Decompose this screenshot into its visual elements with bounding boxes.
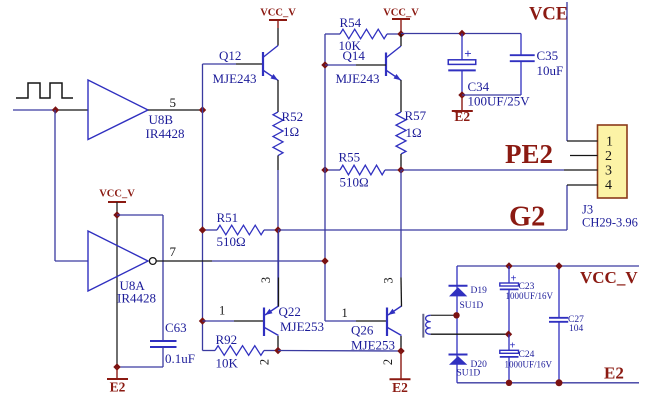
- diode D20: [449, 354, 468, 356]
- svg-text:2: 2: [258, 359, 272, 365]
- inverter U8A: [88, 231, 148, 291]
- wire Q22 emitter up: [278, 230, 280, 278]
- svg-text:3: 3: [605, 164, 612, 179]
- connector J3 body: [598, 125, 628, 198]
- inductor winding core bar: [422, 314, 424, 338]
- svg-text:R54: R54: [340, 15, 362, 30]
- inductor winding coil: [426, 315, 431, 334]
- wire winding top to diode node: [431, 314, 457, 316]
- svg-text:CH29-3.96: CH29-3.96: [582, 216, 638, 230]
- wire R92 node to Q26: [278, 350, 401, 353]
- node C27 bottom junction: [556, 379, 563, 386]
- buffer U8B: [88, 80, 148, 140]
- svg-text:1: 1: [219, 304, 225, 318]
- svg-text:D19: D19: [471, 286, 488, 296]
- pin 3 stub J3: [564, 169, 598, 171]
- node winding-diode junction: [453, 312, 459, 318]
- node R92 right junction: [274, 347, 281, 354]
- svg-text:Q14: Q14: [343, 48, 366, 63]
- svg-text:510Ω: 510Ω: [217, 234, 246, 249]
- node U8A ground junction: [113, 363, 120, 370]
- svg-text:0.1uF: 0.1uF: [165, 351, 195, 366]
- wire winding bottom to capacitor midpoint: [431, 333, 508, 335]
- svg-text:IR4428: IR4428: [117, 291, 156, 306]
- pin 4 stub J3: [567, 184, 598, 186]
- svg-text:1: 1: [342, 306, 348, 320]
- resistor R92: [215, 346, 264, 356]
- wire input to U8B: [13, 109, 56, 111]
- node C23 top junction: [505, 262, 512, 269]
- svg-text:10uF: 10uF: [537, 63, 564, 78]
- ground E2 under Q26: [400, 351, 402, 379]
- wire diode branch vertical: [456, 266, 458, 383]
- wire VCC to Q12 collector: [277, 20, 279, 28]
- svg-text:1Ω: 1Ω: [283, 124, 299, 139]
- svg-text:1: 1: [606, 135, 613, 150]
- wire C35 bottom to C34 node: [462, 94, 521, 96]
- svg-text:1Ω: 1Ω: [406, 125, 422, 140]
- wire Q14 emitter to R57: [400, 80, 402, 112]
- wire VCC to node: [400, 19, 402, 34]
- svg-text:C63: C63: [165, 320, 187, 335]
- node VCC Q14 junction: [397, 30, 404, 37]
- svg-text:MJE243: MJE243: [336, 71, 380, 86]
- svg-text:R51: R51: [217, 210, 239, 225]
- wire VCC_V top rail bottom-right: [457, 265, 639, 267]
- pin 1 stub J3: [567, 140, 598, 142]
- node U8B output junction: [199, 106, 206, 113]
- svg-text:R55: R55: [339, 150, 361, 165]
- wire Q14 collector: [400, 34, 402, 46]
- svg-text:SU1D: SU1D: [460, 301, 484, 311]
- power VCC_V at Q12: [269, 19, 287, 21]
- svg-text:R57: R57: [405, 108, 427, 123]
- node PE2 junction: [397, 166, 404, 173]
- ground E2 under C34: [461, 95, 463, 111]
- svg-text:E2: E2: [392, 380, 408, 395]
- svg-text:SU1D: SU1D: [457, 369, 481, 379]
- capacitor C63: [150, 340, 177, 342]
- svg-text:MJE253: MJE253: [351, 338, 395, 353]
- wire PE2 net to connector pin 3: [401, 169, 564, 171]
- node Q14 base junction: [321, 61, 328, 68]
- svg-text:100UF/25V: 100UF/25V: [468, 94, 531, 109]
- svg-text:PE2: PE2: [505, 139, 553, 169]
- svg-text:Q26: Q26: [351, 323, 374, 338]
- wire U8B output: [148, 109, 203, 111]
- svg-text:E2: E2: [454, 109, 470, 124]
- svg-text:2: 2: [605, 149, 612, 164]
- svg-text:5: 5: [170, 95, 177, 110]
- power VCC_V at Q14: [392, 18, 410, 20]
- node Q26 emitter junction E2: [397, 347, 404, 354]
- wire Q22 collector down: [277, 336, 279, 351]
- resistor R51: [217, 225, 264, 235]
- node U8A VCC junction: [113, 211, 120, 218]
- node C34 bottom junction: [458, 91, 465, 98]
- wire R52 to G2 net: [277, 156, 279, 171]
- svg-text:G2: G2: [509, 202, 545, 233]
- svg-text:C35: C35: [537, 48, 559, 63]
- wire to Q22 base pin 1: [203, 320, 235, 322]
- svg-text:VCC_V: VCC_V: [260, 8, 296, 19]
- node C24 bottom junction: [506, 380, 512, 386]
- svg-text:R92: R92: [216, 332, 238, 347]
- wire VCE to connector pin 1: [566, 2, 568, 141]
- svg-text:3: 3: [382, 277, 396, 283]
- wire Q12 emitter to R52: [277, 80, 279, 112]
- resistor R54: [340, 29, 387, 39]
- diode D19: [449, 285, 468, 287]
- svg-text:104: 104: [569, 324, 584, 334]
- node R51 left junction: [199, 226, 206, 233]
- wire R57 to PE2 node: [400, 154, 402, 170]
- svg-text:IR4428: IR4428: [146, 126, 185, 141]
- svg-text:1000UF/16V: 1000UF/16V: [506, 291, 554, 301]
- node capacitor midpoint junction: [505, 331, 512, 338]
- svg-text:2: 2: [381, 359, 395, 365]
- svg-text:VCE: VCE: [529, 4, 568, 24]
- svg-text:+: +: [511, 274, 517, 285]
- resistor R52: [273, 112, 283, 156]
- wire U8A output: [156, 260, 212, 262]
- svg-text:R52: R52: [282, 109, 304, 124]
- input square wave symbol: [16, 83, 73, 98]
- node R51 right junction G2 net: [274, 226, 281, 233]
- resistor R57: [396, 112, 406, 154]
- wire G2 net to connector pin 4: [278, 229, 567, 231]
- resistor R55: [340, 165, 385, 175]
- transistor Q14: [385, 53, 387, 77]
- svg-text:C34: C34: [468, 79, 490, 94]
- wire Q14 drive net vertical: [324, 34, 326, 321]
- wire to Q14 base: [325, 64, 356, 66]
- svg-text:1000UF/16V: 1000UF/16V: [505, 360, 553, 370]
- power VCC_V at U8A: [108, 201, 126, 203]
- node R55 left junction: [321, 166, 328, 173]
- svg-text:3: 3: [259, 277, 273, 283]
- node input junction: [52, 106, 59, 113]
- wire U8B output net vertical: [202, 64, 204, 351]
- capacitor C24: [508, 334, 510, 350]
- svg-text:7: 7: [170, 244, 177, 259]
- svg-text:Q12: Q12: [219, 48, 241, 63]
- svg-text:J3: J3: [582, 203, 593, 217]
- wire Q26 emitter up to PE2 node: [400, 170, 402, 278]
- svg-text:U8B: U8B: [149, 112, 174, 127]
- capacitor C27: [558, 266, 560, 318]
- wire VCC junction to C63: [117, 214, 163, 216]
- transistor Q22: [263, 308, 265, 337]
- svg-text:Q22: Q22: [279, 304, 301, 319]
- svg-text:+: +: [464, 46, 471, 61]
- node C27 top junction: [555, 262, 562, 269]
- transistor Q12: [262, 52, 264, 76]
- wire to Q12 base: [203, 63, 237, 65]
- svg-text:MJE243: MJE243: [213, 71, 257, 86]
- wire VCC rail to capacitors: [401, 33, 521, 35]
- node U8A output junction: [321, 257, 328, 264]
- svg-text:+: +: [510, 341, 516, 352]
- svg-text:VCC_V: VCC_V: [580, 268, 638, 287]
- transistor Q26: [386, 308, 388, 337]
- svg-text:VCC_V: VCC_V: [383, 8, 419, 19]
- wire input junction down to U8A: [54, 110, 56, 261]
- capacitor C35: [520, 34, 522, 56]
- svg-text:E2: E2: [110, 380, 126, 395]
- svg-text:MJE253: MJE253: [280, 319, 324, 334]
- node C34 top junction: [458, 30, 465, 37]
- svg-text:C24: C24: [519, 350, 535, 360]
- svg-text:E2: E2: [604, 364, 624, 383]
- svg-text:VCC_V: VCC_V: [99, 189, 135, 200]
- wire Q26 collector down: [400, 336, 402, 351]
- ground E2 under U8A: [116, 367, 118, 379]
- inverter bubble U8A: [149, 258, 156, 265]
- svg-text:510Ω: 510Ω: [340, 175, 369, 190]
- wire E2 bottom rail: [457, 382, 639, 384]
- node Q22 base junction: [199, 317, 206, 324]
- wire Q26 base from drive net: [325, 320, 356, 322]
- wire VCC through U8A to E2: [116, 202, 118, 367]
- capacitor C23: [508, 266, 510, 283]
- capacitor C34: [461, 34, 463, 60]
- svg-text:4: 4: [605, 178, 612, 193]
- pin 2 stub J3: [570, 155, 598, 157]
- svg-text:10K: 10K: [216, 356, 239, 371]
